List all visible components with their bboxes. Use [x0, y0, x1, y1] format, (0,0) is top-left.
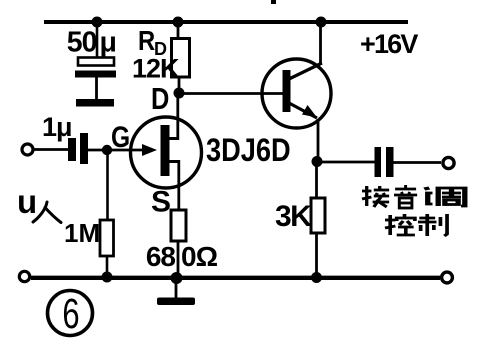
- label figure 6: [48, 289, 93, 337]
- label kong-zhi (control): [385, 214, 447, 236]
- svg-text:G: G: [111, 120, 130, 154]
- wire top +16V rail: [44, 20, 408, 24]
- node bottom 680: [171, 272, 183, 284]
- tiao: [426, 187, 465, 206]
- label G: [111, 120, 130, 154]
- terminal input: [22, 144, 33, 155]
- wire emitter down: [317, 119, 320, 162]
- jie: [362, 186, 389, 207]
- node D: [174, 88, 185, 99]
- wire 680 to bottom rail: [177, 241, 180, 277]
- svg-text:1M: 1M: [64, 218, 100, 248]
- svg-text:50: 50: [67, 27, 97, 59]
- label RD: [138, 24, 155, 56]
- label 3DJ6D: [206, 133, 291, 169]
- svg-text:3K: 3K: [275, 200, 312, 233]
- wire 50u cap to rail: [96, 22, 99, 58]
- node top rail / 50u: [92, 17, 103, 28]
- ground: [157, 278, 195, 305]
- wire node to output cap: [317, 161, 375, 164]
- wire 3K to bottom rail: [315, 233, 318, 277]
- resistor RD 12K: [172, 39, 190, 78]
- svg-text:68: 68: [146, 241, 176, 272]
- wire RD to node D: [178, 77, 181, 93]
- wire bottom rail: [31, 276, 440, 280]
- resistor R3 3K: [311, 198, 325, 233]
- label D: [151, 82, 169, 117]
- wire 1M to bottom rail: [106, 256, 109, 277]
- label u-in subscript ru: [33, 202, 61, 223]
- wire node D to base of Q1: [179, 92, 284, 95]
- capacitor C1 50u electrolytic: [75, 58, 116, 107]
- svg-text:R: R: [138, 24, 155, 56]
- node top rail / collector: [316, 17, 327, 28]
- node bottom 1M: [102, 272, 113, 283]
- capacitor C3 output: [375, 147, 394, 177]
- wire emitter node to 3K: [315, 162, 318, 198]
- capacitor C2 1u: [68, 133, 88, 164]
- wire C2 to node G: [88, 149, 107, 152]
- svg-text:D: D: [151, 82, 169, 117]
- speck (scan mark): [271, 0, 276, 4]
- wire output cap to terminal: [393, 161, 441, 164]
- svg-text:S: S: [151, 186, 171, 219]
- wire node G to gate: [107, 149, 144, 152]
- svg-text:u: u: [17, 183, 37, 220]
- terminal bottom right: [442, 272, 453, 283]
- label jie-yin-tiao (connect tone): [362, 185, 465, 208]
- JFET V1 3DJ6D: [131, 93, 202, 210]
- node G: [102, 145, 112, 155]
- svg-text:12K: 12K: [132, 54, 180, 84]
- svg-text:0Ω: 0Ω: [181, 241, 218, 272]
- resistor R2 1M: [100, 220, 114, 256]
- terminal bottom left: [19, 271, 29, 281]
- node emitter/output: [312, 156, 323, 167]
- node top rail / RD: [173, 17, 184, 28]
- svg-text:6: 6: [62, 289, 79, 337]
- svg-text:+16V: +16V: [360, 29, 418, 59]
- svg-text:μ: μ: [100, 27, 117, 59]
- svg-text:1μ: 1μ: [42, 112, 72, 142]
- wire node G down to 1M: [106, 150, 109, 220]
- wire collector to rail: [319, 22, 322, 64]
- transistor Q1: [262, 59, 331, 128]
- kong: [385, 214, 415, 235]
- node bottom 3K: [311, 272, 322, 283]
- zhi: [418, 214, 447, 236]
- terminal output: [443, 157, 454, 168]
- resistor R4 680: [171, 210, 186, 241]
- svg-text:3DJ6D: 3DJ6D: [206, 133, 291, 169]
- yin: [394, 185, 417, 208]
- wire rail to RD: [177, 22, 180, 39]
- wire input to C2: [34, 148, 68, 151]
